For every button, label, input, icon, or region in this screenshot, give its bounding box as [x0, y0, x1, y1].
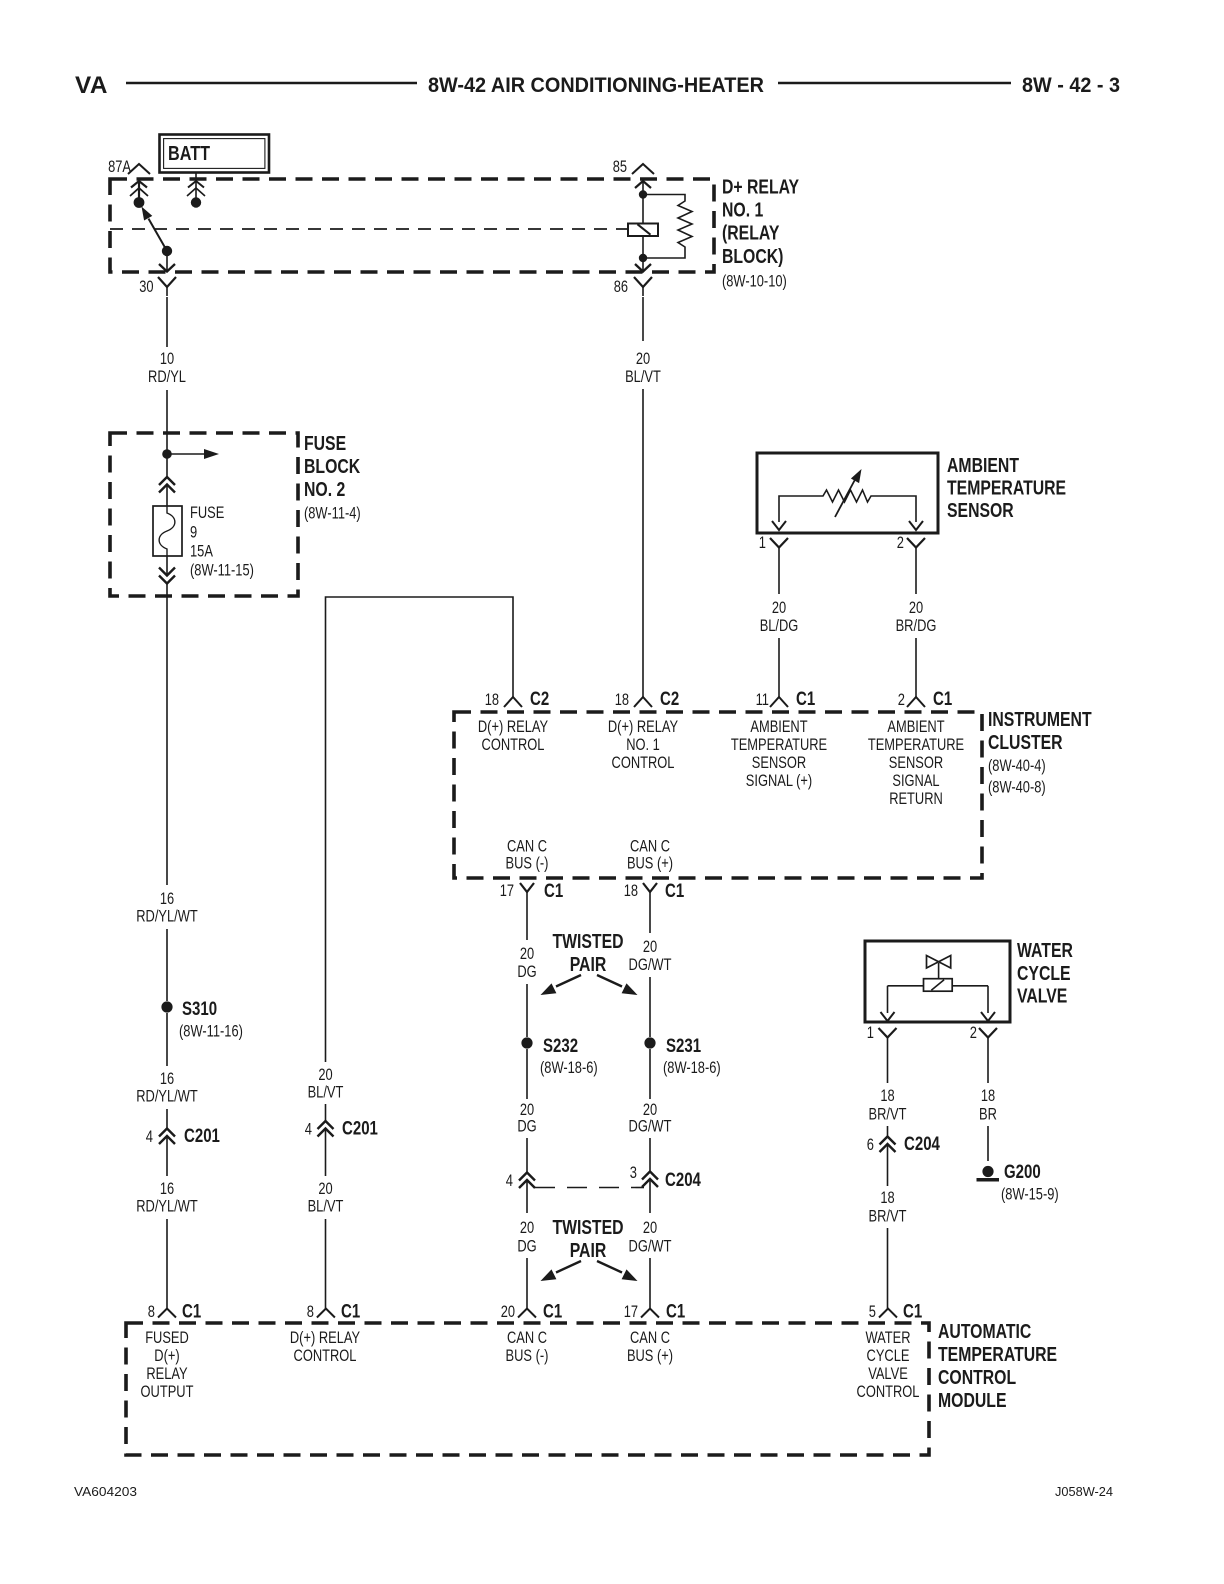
relay output arrow to pin 30 [159, 251, 175, 272]
svg-text:(8W-18-6): (8W-18-6) [540, 1059, 598, 1077]
cluster connector C1 pin 18 bottom [624, 881, 685, 902]
fuse entry double chevron [159, 477, 175, 506]
fuse block no.2 dashed box [110, 433, 298, 596]
cluster connector C2 pin 18 right [615, 689, 680, 710]
svg-text:20: 20 [318, 1180, 332, 1198]
cluster connector C1 pin 17 bottom [500, 881, 564, 902]
svg-text:8W - 42 - 3: 8W - 42 - 3 [1022, 74, 1120, 97]
svg-text:TEMPERATURE: TEMPERATURE [731, 736, 827, 754]
wire 20 DG/WT middle [629, 1049, 672, 1172]
svg-text:20: 20 [520, 1219, 534, 1237]
svg-text:6: 6 [867, 1136, 874, 1154]
sensor pin 2 [897, 534, 925, 556]
svg-text:BL/VT: BL/VT [308, 1198, 344, 1216]
svg-text:INSTRUMENT: INSTRUMENT [988, 709, 1092, 731]
relay coil [628, 195, 658, 259]
svg-text:17: 17 [624, 1303, 638, 1321]
splice S231 [644, 1036, 720, 1077]
svg-text:S231: S231 [666, 1036, 701, 1057]
svg-text:20: 20 [909, 599, 923, 617]
relay movable contact dot [162, 246, 172, 256]
svg-text:CAN C: CAN C [507, 1329, 547, 1347]
ATC input label CAN C BUS (-) [506, 1329, 549, 1365]
svg-text:CAN C: CAN C [630, 838, 670, 856]
svg-text:FUSE: FUSE [304, 433, 346, 455]
ATC input label CAN C BUS (+) [627, 1329, 673, 1365]
svg-text:DG/WT: DG/WT [629, 1118, 672, 1136]
wire 20 BL/VT labels lower [308, 1180, 344, 1309]
svg-text:(8W-40-8): (8W-40-8) [988, 779, 1046, 797]
svg-text:FUSE: FUSE [190, 504, 224, 522]
ambient temperature sensor box [757, 453, 938, 533]
svg-text:TWISTED: TWISTED [552, 1217, 623, 1239]
water cycle valve box [865, 941, 1010, 1022]
sensor label AMBIENT TEMPERATURE SENSOR [947, 455, 1066, 522]
svg-text:WATER: WATER [1017, 940, 1073, 962]
svg-text:(8W-11-15): (8W-11-15) [190, 562, 254, 580]
C204 connector dashed link [535, 1187, 644, 1189]
svg-text:FUSED: FUSED [145, 1329, 189, 1347]
cluster connector C2 pin 18 left [485, 689, 550, 710]
svg-text:OUTPUT: OUTPUT [141, 1383, 194, 1401]
svg-text:C1: C1 [666, 1302, 686, 1323]
svg-text:CONTROL: CONTROL [294, 1347, 357, 1365]
wire 10 RD/YL [148, 297, 186, 433]
svg-text:3: 3 [630, 1164, 637, 1182]
svg-text:8: 8 [307, 1303, 314, 1321]
svg-text:NO. 1: NO. 1 [626, 736, 660, 754]
svg-text:BUS (-): BUS (-) [506, 855, 549, 873]
svg-text:BLOCK: BLOCK [304, 456, 361, 478]
svg-text:1: 1 [867, 1024, 874, 1042]
svg-text:20: 20 [636, 350, 650, 368]
svg-text:CLUSTER: CLUSTER [988, 732, 1063, 754]
svg-text:VALVE: VALVE [868, 1365, 908, 1383]
svg-text:C201: C201 [184, 1126, 220, 1147]
svg-text:RD/YL: RD/YL [148, 368, 186, 386]
svg-text:AUTOMATIC: AUTOMATIC [938, 1321, 1031, 1343]
svg-text:NO. 1: NO. 1 [722, 200, 763, 222]
svg-text:9: 9 [190, 524, 197, 542]
svg-text:20: 20 [643, 1219, 657, 1237]
svg-text:TEMPERATURE: TEMPERATURE [938, 1344, 1057, 1366]
pin 85 [613, 158, 654, 176]
sensor lead arrows at box edge [772, 521, 923, 530]
sensor thermistor [779, 469, 916, 522]
feed tap arrow [167, 449, 219, 459]
svg-text:TEMPERATURE: TEMPERATURE [947, 478, 1066, 500]
relay block label D+ RELAY NO. 1 (RELAY BLOCK) [722, 176, 800, 290]
valve pin 1 [867, 1024, 897, 1046]
svg-text:SENSOR: SENSOR [889, 754, 943, 772]
ATC input label D(+) RELAY CONTROL [290, 1329, 360, 1365]
svg-text:VA604203: VA604203 [74, 1484, 137, 1499]
svg-text:C204: C204 [904, 1134, 940, 1155]
header rule right [778, 82, 1011, 85]
footer sheet number J058W-24 [1055, 1484, 1113, 1499]
wire 16 RD/YL/WT lower [136, 1180, 198, 1309]
header rule left [126, 82, 417, 85]
svg-text:BUS (+): BUS (+) [627, 855, 673, 873]
svg-text:WATER: WATER [866, 1329, 911, 1347]
svg-text:BR/VT: BR/VT [869, 1106, 907, 1124]
svg-text:SENSOR: SENSOR [947, 500, 1014, 522]
svg-text:15A: 15A [190, 543, 213, 561]
ATC input label WATER CYCLE VALVE CONTROL [857, 1329, 920, 1401]
wire 20 DG/WT lower [629, 1219, 672, 1309]
instrument cluster label [988, 709, 1092, 797]
svg-text:C2: C2 [530, 689, 549, 710]
relay coil feed arrow pin 85 [635, 181, 651, 199]
ATC connector C1 pin 5 [869, 1302, 923, 1323]
ATC module label [938, 1321, 1057, 1412]
svg-text:D(+) RELAY: D(+) RELAY [478, 718, 548, 736]
svg-text:16: 16 [160, 890, 174, 908]
relay D+ Relay No.1 dashed block [110, 179, 714, 272]
svg-text:DG: DG [517, 1238, 536, 1256]
svg-text:20: 20 [772, 599, 786, 617]
svg-text:18: 18 [615, 691, 629, 709]
svg-text:30: 30 [139, 278, 153, 296]
svg-text:TEMPERATURE: TEMPERATURE [868, 736, 964, 754]
svg-text:CYCLE: CYCLE [1017, 963, 1071, 985]
instrument cluster dashed box [454, 712, 982, 878]
wire 20 BL/VT labels upper [308, 1066, 344, 1102]
svg-text:DG/WT: DG/WT [629, 956, 672, 974]
svg-text:AMBIENT: AMBIENT [750, 718, 807, 736]
svg-text:(8W-15-9): (8W-15-9) [1001, 1186, 1059, 1204]
svg-text:BL/VT: BL/VT [308, 1084, 344, 1102]
fuse exit double chevron [159, 556, 175, 596]
header page number 8W - 42 - 3 [1022, 74, 1120, 97]
svg-text:18: 18 [981, 1087, 995, 1105]
svg-text:SENSOR: SENSOR [752, 754, 806, 772]
wire 20 DG upper [517, 900, 536, 1037]
svg-text:AMBIENT: AMBIENT [887, 718, 944, 736]
svg-text:RD/YL/WT: RD/YL/WT [136, 1088, 198, 1106]
svg-text:2: 2 [898, 691, 905, 709]
relay coil bottom junction dot [639, 254, 647, 262]
svg-text:RELAY: RELAY [146, 1365, 187, 1383]
svg-text:20: 20 [520, 1101, 534, 1119]
wire 20 BL/DG [760, 556, 799, 698]
relay coil return arrow to pin 86 [635, 258, 651, 272]
valve symbol [927, 956, 951, 979]
cluster output label CAN C BUS (+) [627, 838, 673, 873]
svg-text:20: 20 [643, 938, 657, 956]
svg-text:BR/VT: BR/VT [869, 1208, 907, 1226]
wire 20 DG lower [517, 1219, 536, 1309]
relay coil suppression resistor [643, 195, 692, 259]
svg-text:17: 17 [500, 882, 514, 900]
wire 20 DG/WT upper [629, 900, 672, 1037]
svg-text:PAIR: PAIR [570, 954, 607, 976]
svg-text:18: 18 [624, 882, 638, 900]
svg-text:S232: S232 [543, 1036, 578, 1057]
svg-text:SIGNAL: SIGNAL [892, 772, 939, 790]
ATC connector C1 pin 8 left [148, 1302, 202, 1323]
svg-text:C1: C1 [544, 881, 564, 902]
svg-text:G200: G200 [1004, 1162, 1041, 1183]
pin 86 [614, 277, 652, 296]
svg-text:20: 20 [520, 945, 534, 963]
svg-text:NO. 2: NO. 2 [304, 479, 345, 501]
pin 87A [108, 158, 150, 176]
svg-text:18: 18 [880, 1189, 894, 1207]
wire 20 BR/DG [896, 556, 937, 698]
svg-text:(8W-10-10): (8W-10-10) [722, 273, 787, 291]
ATC connector C1 pin 8 right [307, 1302, 361, 1323]
svg-text:RD/YL/WT: RD/YL/WT [136, 908, 198, 926]
splice S310 [161, 999, 243, 1041]
svg-text:86: 86 [614, 278, 628, 296]
cluster input label D(+) RELAY NO. 1 CONTROL [608, 718, 678, 772]
battery feed pin into relay [187, 172, 205, 208]
svg-text:C2: C2 [660, 689, 679, 710]
svg-text:BATT: BATT [168, 142, 210, 165]
svg-text:S310: S310 [182, 999, 217, 1020]
svg-text:BR: BR [979, 1106, 997, 1124]
cluster connector C1 pin 2 [898, 689, 953, 710]
ATC connector C1 pin 20 [501, 1302, 563, 1323]
svg-text:J058W-24: J058W-24 [1055, 1484, 1113, 1499]
water cycle valve label [1017, 940, 1073, 1008]
wire 18 BR/VT lower [869, 1189, 907, 1309]
svg-text:20: 20 [318, 1066, 332, 1084]
cluster input label AMBIENT TEMPERATURE SENSOR SIGNAL (+) [731, 718, 827, 790]
svg-text:4: 4 [305, 1121, 312, 1139]
cluster connector C1 pin 11 [756, 689, 816, 710]
svg-text:C1: C1 [933, 689, 953, 710]
wire into fuse block [166, 433, 168, 477]
svg-text:16: 16 [160, 1180, 174, 1198]
svg-text:16: 16 [160, 1070, 174, 1088]
svg-text:RD/YL/WT: RD/YL/WT [136, 1198, 198, 1216]
svg-text:20: 20 [501, 1303, 515, 1321]
header mark VA [75, 72, 108, 99]
relay fixed contact 87A arrow [130, 181, 148, 208]
wire 16 RD/YL/WT upper [136, 596, 198, 1001]
svg-text:AMBIENT: AMBIENT [947, 455, 1019, 477]
cluster input label D(+) RELAY CONTROL [478, 718, 548, 754]
valve pin 2 [970, 1024, 997, 1046]
svg-text:DG: DG [517, 963, 536, 981]
svg-text:D(+) RELAY: D(+) RELAY [290, 1329, 360, 1347]
svg-text:DG/WT: DG/WT [629, 1238, 672, 1256]
svg-text:(RELAY: (RELAY [722, 223, 780, 245]
svg-text:87A: 87A [108, 158, 131, 176]
svg-text:(8W-11-16): (8W-11-16) [179, 1023, 243, 1041]
twisted pair note lower [541, 1217, 638, 1281]
svg-text:MODULE: MODULE [938, 1390, 1007, 1412]
svg-text:8: 8 [148, 1303, 155, 1321]
relay mechanical link dashed [110, 228, 628, 230]
svg-text:CONTROL: CONTROL [612, 754, 675, 772]
svg-text:BUS (+): BUS (+) [627, 1347, 673, 1365]
svg-text:BUS (-): BUS (-) [506, 1347, 549, 1365]
svg-text:20: 20 [643, 1101, 657, 1119]
sensor pin 1 [759, 534, 788, 556]
svg-text:VALVE: VALVE [1017, 986, 1067, 1008]
svg-text:85: 85 [613, 158, 627, 176]
svg-text:4: 4 [146, 1128, 153, 1146]
relay switch arm [142, 207, 168, 252]
svg-text:(8W-18-6): (8W-18-6) [663, 1059, 721, 1077]
connector C204 pin 3 [630, 1164, 701, 1213]
svg-text:C1: C1 [665, 881, 685, 902]
svg-text:CYCLE: CYCLE [867, 1347, 910, 1365]
svg-text:CONTROL: CONTROL [938, 1367, 1016, 1389]
svg-text:(8W-40-4): (8W-40-4) [988, 757, 1046, 775]
svg-text:C1: C1 [341, 1302, 361, 1323]
svg-text:11: 11 [756, 691, 769, 709]
wire 20 DG middle [517, 1049, 536, 1173]
svg-text:8W-42 AIR CONDITIONING-HEATER: 8W-42 AIR CONDITIONING-HEATER [428, 74, 764, 97]
footer drawing number VA604203 [74, 1484, 137, 1499]
svg-text:4: 4 [506, 1172, 513, 1190]
svg-text:(8W-11-4): (8W-11-4) [304, 505, 361, 523]
svg-text:DG: DG [517, 1118, 536, 1136]
svg-text:BL/VT: BL/VT [625, 368, 661, 386]
svg-text:1: 1 [759, 534, 766, 552]
svg-text:18: 18 [485, 691, 499, 709]
svg-text:C1: C1 [903, 1302, 923, 1323]
connector C204 pin 6 [867, 1134, 940, 1186]
ATC module dashed box [126, 1323, 929, 1455]
junction dot feed tap [162, 449, 172, 459]
svg-text:C201: C201 [342, 1119, 378, 1140]
svg-text:BLOCK): BLOCK) [722, 246, 783, 268]
ATC input label FUSED D(+) RELAY OUTPUT [141, 1329, 194, 1401]
svg-text:CONTROL: CONTROL [482, 736, 545, 754]
svg-text:C1: C1 [543, 1302, 563, 1323]
svg-text:TWISTED: TWISTED [552, 931, 623, 953]
svg-text:18: 18 [880, 1087, 894, 1105]
svg-text:CONTROL: CONTROL [857, 1383, 920, 1401]
svg-text:PAIR: PAIR [570, 1240, 607, 1262]
svg-text:BL/DG: BL/DG [760, 617, 799, 635]
connector C201 pin 4 left [146, 1126, 220, 1176]
svg-text:2: 2 [970, 1024, 977, 1042]
svg-text:VA: VA [75, 72, 108, 99]
battery feed box BATT [160, 135, 270, 173]
header title 8W-42 AIR CONDITIONING-HEATER [428, 74, 764, 97]
svg-text:SIGNAL (+): SIGNAL (+) [746, 772, 812, 790]
wire 20 BL/VT from relay pin 86 [625, 297, 661, 697]
wire 18 BR [979, 1046, 997, 1162]
svg-text:10: 10 [160, 350, 174, 368]
connector C201 pin 4 right [305, 1104, 378, 1176]
svg-text:5: 5 [869, 1303, 876, 1321]
svg-text:D(+) RELAY: D(+) RELAY [608, 718, 678, 736]
svg-text:C1: C1 [796, 689, 816, 710]
valve solenoid [881, 979, 996, 1021]
wire 20 BL/VT branch from C2 [326, 597, 514, 1062]
wire 18 BR/VT upper [869, 1046, 907, 1137]
svg-text:CAN C: CAN C [630, 1329, 670, 1347]
svg-text:C204: C204 [665, 1170, 701, 1191]
cluster output label CAN C BUS (-) [506, 838, 549, 873]
svg-text:D+ RELAY: D+ RELAY [722, 176, 800, 198]
connector C204 pin 4 [506, 1172, 535, 1213]
cluster input label AMBIENT TEMPERATURE SENSOR SIGNAL RETURN [868, 718, 964, 808]
ATC connector C1 pin 17 [624, 1302, 686, 1323]
fuse 9 15A [153, 504, 254, 580]
ground G200 [977, 1162, 1059, 1204]
svg-text:RETURN: RETURN [889, 790, 943, 808]
svg-text:2: 2 [897, 534, 904, 552]
fuse block label FUSE BLOCK NO. 2 [304, 433, 361, 523]
wire 16 RD/YL/WT middle [136, 1013, 198, 1129]
svg-text:C1: C1 [182, 1302, 202, 1323]
svg-text:D(+): D(+) [154, 1347, 179, 1365]
splice S232 [521, 1036, 597, 1077]
svg-text:BR/DG: BR/DG [896, 617, 937, 635]
twisted pair note upper [541, 931, 638, 995]
pin 30 [139, 277, 176, 296]
svg-text:CAN C: CAN C [507, 838, 547, 856]
